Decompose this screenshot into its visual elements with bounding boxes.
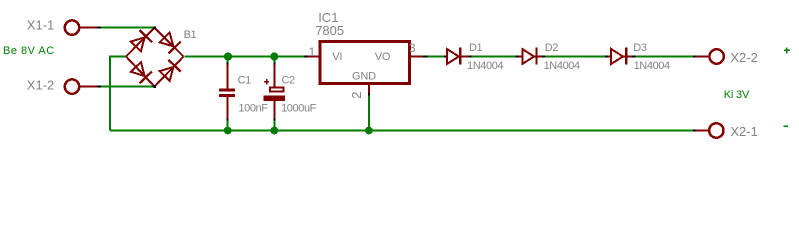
svg-text:X2-1: X2-1	[730, 124, 757, 139]
svg-text:1N4004: 1N4004	[467, 60, 503, 72]
svg-text:D2: D2	[545, 42, 559, 54]
svg-text:X2-2: X2-2	[730, 50, 757, 65]
svg-text:D3: D3	[633, 42, 647, 54]
svg-text:7805: 7805	[315, 23, 344, 38]
svg-text:VO: VO	[375, 51, 391, 63]
svg-text:100nF: 100nF	[238, 103, 268, 115]
svg-text:Be 8V AC: Be 8V AC	[3, 45, 55, 57]
svg-text:C2: C2	[282, 74, 296, 86]
svg-text:X1-2: X1-2	[27, 77, 54, 92]
svg-text:VI: VI	[332, 51, 342, 63]
svg-text:D1: D1	[469, 42, 483, 54]
svg-text:1N4004: 1N4004	[634, 60, 670, 72]
svg-text:Ki 3V: Ki 3V	[724, 89, 750, 101]
svg-text:3: 3	[409, 41, 416, 55]
svg-text:B1: B1	[184, 29, 197, 41]
svg-text:C1: C1	[238, 74, 252, 86]
svg-text:X1-1: X1-1	[27, 18, 54, 33]
svg-text:1N4004: 1N4004	[544, 60, 580, 72]
svg-text:1000uF: 1000uF	[281, 103, 317, 115]
svg-text:2: 2	[349, 91, 364, 98]
svg-text:1: 1	[309, 45, 316, 59]
svg-text:GND: GND	[352, 71, 376, 83]
